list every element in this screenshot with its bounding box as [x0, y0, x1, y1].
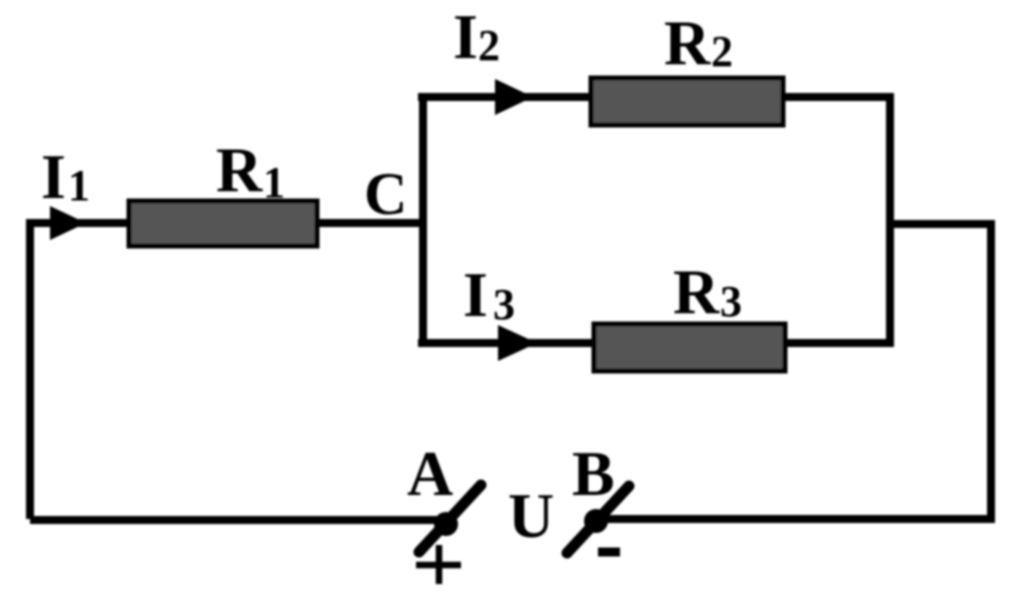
svg-text:1: 1: [263, 158, 285, 207]
wire mid right horizontal: [890, 220, 995, 228]
wire bottom left to terminal A: [30, 516, 446, 524]
terminal A slash: [419, 485, 481, 552]
wire bottom branch right: [786, 339, 894, 347]
wire bottom branch left: [418, 339, 592, 347]
plus sign: [416, 545, 461, 584]
svg-text:R: R: [673, 256, 720, 327]
terminal B slash: [567, 486, 629, 553]
wire bottom right to terminal B: [598, 515, 995, 523]
wire right vertical between branches: [886, 93, 894, 347]
wire node C vertical: [419, 93, 427, 347]
svg-text:U: U: [508, 480, 554, 551]
svg-text:3: 3: [720, 277, 742, 326]
wire R1 to node C: [318, 219, 426, 227]
minus sign: [598, 548, 620, 557]
resistor R3: [594, 324, 785, 371]
arrow I1: [50, 206, 86, 240]
terminal B dot: [584, 509, 608, 533]
svg-text:A: A: [407, 438, 453, 509]
svg-text:R: R: [216, 134, 263, 205]
svg-text:2: 2: [478, 21, 500, 70]
svg-text:2: 2: [711, 27, 733, 76]
svg-text:1: 1: [68, 161, 90, 210]
svg-text:I: I: [463, 259, 488, 330]
svg-text:C: C: [364, 161, 407, 227]
wire left vertical and top-left horizontal: [26, 219, 127, 519]
arrow I3: [498, 325, 537, 361]
svg-text:B: B: [572, 438, 615, 509]
svg-text:I: I: [453, 1, 478, 72]
resistor R1: [129, 201, 317, 246]
wire top branch left: [418, 93, 590, 101]
arrow I2: [495, 79, 533, 115]
svg-text:R: R: [664, 7, 711, 78]
terminal A dot: [434, 512, 458, 536]
wire far right vertical: [987, 224, 995, 523]
resistor R2: [591, 78, 783, 125]
svg-text:I: I: [41, 141, 66, 212]
wire top branch right: [784, 93, 894, 101]
svg-text:3: 3: [493, 280, 515, 329]
